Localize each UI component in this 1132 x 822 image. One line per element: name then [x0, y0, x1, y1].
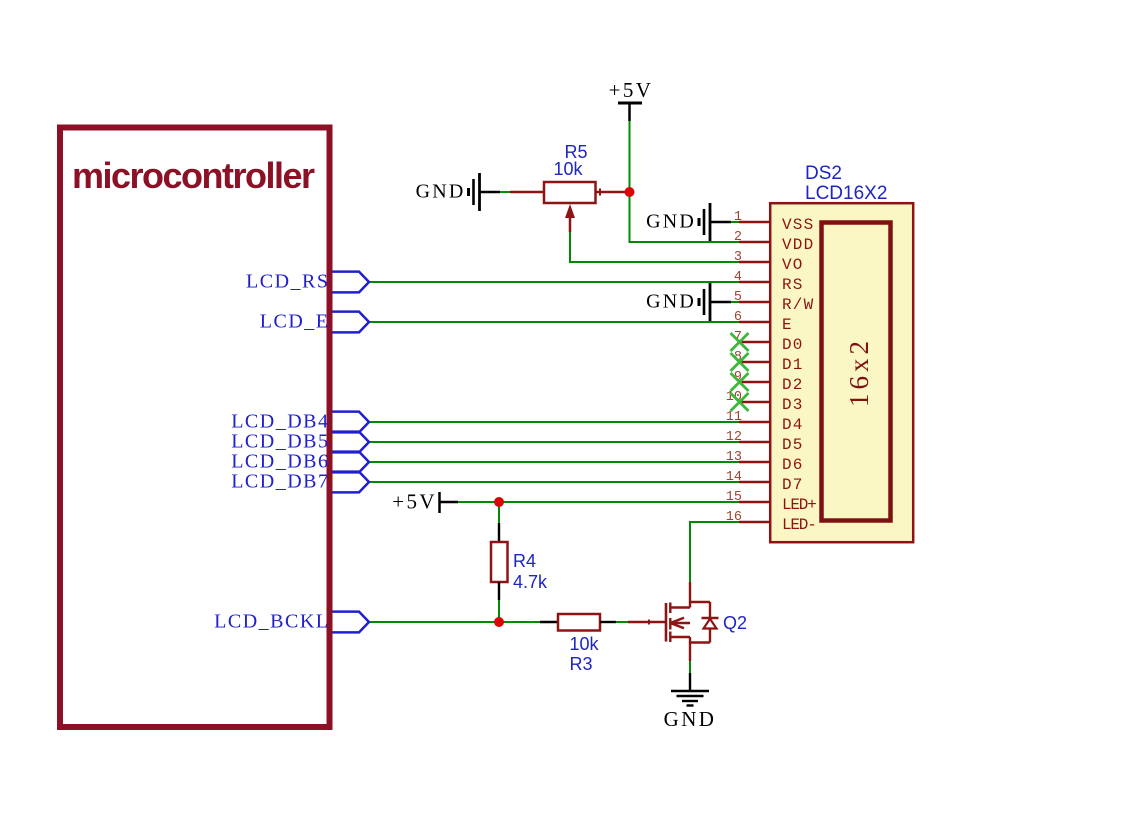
svg-text:LCD_DB7: LCD_DB7 — [231, 471, 329, 493]
svg-text:VSS: VSS — [782, 216, 814, 234]
pin 13 D6 — [739, 461, 770, 464]
svg-text:12: 12 — [726, 430, 742, 445]
tag LCD_DB5 — [333, 432, 370, 453]
wire GND stub at pin 1 — [730, 221, 740, 223]
IC DS2 LCD16X2 body — [770, 203, 913, 542]
svg-text:GND: GND — [646, 211, 696, 233]
svg-text:D6: D6 — [782, 456, 804, 474]
svg-text:LCD16X2: LCD16X2 — [805, 183, 887, 204]
wire net LCD_RS (tag tip to pin 4) — [369, 281, 739, 283]
svg-text:10k: 10k — [569, 634, 599, 654]
wire net LCD_DB5 (tag tip to pin 12) — [369, 441, 739, 443]
svg-text:LCD_DB5: LCD_DB5 — [231, 431, 329, 453]
pin 7 D0 — [739, 341, 770, 344]
wire net +5V to LED+ pin 15 — [458, 501, 739, 503]
svg-text:4: 4 — [734, 270, 742, 285]
svg-text:D0: D0 — [782, 336, 804, 354]
pin 3 VO — [739, 261, 770, 264]
pin 9 D2 — [739, 381, 770, 384]
svg-text:D4: D4 — [782, 416, 804, 434]
tag LCD_E — [333, 312, 370, 333]
svg-text:D2: D2 — [782, 376, 804, 394]
no-connect pin 10 — [731, 393, 749, 411]
svg-text:6: 6 — [734, 310, 742, 325]
wire Q2 source to ground — [689, 660, 691, 673]
svg-text:10k: 10k — [553, 159, 583, 179]
wire GND stub at pin 5 — [730, 301, 740, 303]
microcontroller box — [60, 128, 330, 728]
svg-text:D7: D7 — [782, 476, 804, 494]
svg-text:VO: VO — [782, 256, 804, 274]
svg-text:E: E — [782, 316, 793, 334]
svg-text:13: 13 — [726, 450, 742, 465]
ground symbol bottom (earth) — [664, 673, 717, 731]
svg-text:16: 16 — [726, 510, 742, 525]
svg-text:LCD_RS: LCD_RS — [246, 271, 329, 293]
Q2 gate pin — [628, 621, 665, 623]
svg-text:LCD_BCKL: LCD_BCKL — [214, 611, 329, 633]
junction node at +5V / R4 top — [494, 497, 504, 507]
svg-text:DS2: DS2 — [805, 163, 842, 184]
resistor R3 — [540, 614, 616, 631]
pin 14 D7 — [739, 481, 770, 484]
pin 1 VSS — [739, 221, 770, 224]
wire junction1 to R4 top — [498, 502, 500, 523]
pin 16 LED- — [739, 521, 770, 524]
svg-text:15: 15 — [726, 490, 742, 505]
svg-text:GND: GND — [646, 291, 696, 313]
wire net LCD_BCKL tag to R3 — [369, 621, 540, 623]
ground symbol at LCD pin 5 — [646, 283, 731, 321]
transistor Q2 (n-MOSFET with body diode) — [628, 582, 719, 661]
tag LCD_RS — [333, 272, 370, 293]
svg-text:16x2: 16x2 — [844, 337, 874, 407]
svg-text:LCD_DB6: LCD_DB6 — [231, 451, 329, 473]
no-connect pin 9 — [731, 373, 749, 391]
svg-text:3: 3 — [734, 250, 742, 265]
svg-text:1: 1 — [734, 210, 742, 225]
tag LCD_DB7 — [333, 472, 370, 493]
svg-text:14: 14 — [726, 470, 742, 485]
pin 8 D1 — [739, 361, 770, 364]
svg-text:+5V: +5V — [609, 78, 654, 102]
svg-text:R3: R3 — [569, 654, 592, 674]
svg-text:R4: R4 — [513, 551, 536, 571]
svg-text:D5: D5 — [782, 436, 804, 454]
svg-text:4.7k: 4.7k — [513, 572, 548, 592]
svg-text:GND: GND — [416, 181, 466, 203]
potentiometer R5 — [510, 182, 630, 232]
Q2 body diode branch — [690, 602, 719, 643]
svg-text:LCD_DB4: LCD_DB4 — [231, 411, 329, 433]
display window rectangle — [822, 223, 891, 521]
ground symbol at LCD pin 1 — [646, 203, 731, 241]
wire net LCD_DB6 (tag tip to pin 13) — [369, 461, 739, 463]
wire GND stub at R5 left — [499, 191, 510, 193]
svg-text:D3: D3 — [782, 396, 804, 414]
wire R3 to Q2 gate — [616, 621, 628, 623]
ground symbol at R5 left — [416, 173, 500, 211]
svg-text:2: 2 — [734, 230, 742, 245]
junction node at R4 bottom / R3 — [494, 617, 504, 627]
no-connect X marks on pins 7-10 — [731, 333, 749, 411]
pin 10 D3 — [739, 401, 770, 404]
no-connect pin 7 — [731, 333, 749, 351]
wire R4 bottom to junction2 — [498, 600, 500, 622]
Q2 channel dashes — [669, 603, 671, 614]
LCD pins 1-16 — [739, 222, 770, 522]
wire net VO from R5 wiper to pin 3 — [570, 232, 739, 262]
supply +5V symbol lower — [392, 490, 458, 514]
junction node at R5 / +5V — [625, 187, 635, 197]
Q2 body diode triangle — [704, 619, 717, 629]
svg-text:D1: D1 — [782, 356, 804, 374]
pin 12 D5 — [739, 441, 770, 444]
svg-text:+5V: +5V — [392, 490, 437, 514]
Q2 drain contact — [670, 606, 690, 608]
Q2 gate plate — [665, 603, 668, 642]
svg-text:5: 5 — [734, 290, 742, 305]
tag LCD_DB4 — [333, 412, 370, 433]
pin 5 R/W — [739, 301, 770, 304]
svg-text:GND: GND — [664, 707, 717, 731]
Q2 bulk arrow — [670, 618, 690, 629]
wire net LCD_E (tag tip to pin 6) — [369, 321, 739, 323]
svg-text:LED+: LED+ — [782, 496, 816, 514]
svg-text:R/W: R/W — [782, 296, 814, 314]
svg-text:LED-: LED- — [782, 516, 816, 534]
tag LCD_BCKL — [333, 612, 370, 633]
Q2 source lead — [689, 637, 691, 661]
pin 2 VDD — [739, 241, 770, 244]
svg-text:microcontroller: microcontroller — [72, 155, 315, 196]
tag LCD_DB6 — [333, 452, 370, 473]
wire net LED- pin 16 to Q2 drain — [690, 522, 739, 582]
wire net +5V to VDD pin 2 — [630, 121, 740, 242]
pin 4 RS — [739, 281, 770, 284]
pin names — [782, 216, 816, 534]
resistor R4 — [491, 523, 508, 600]
pin 6 E — [739, 321, 770, 324]
svg-text:Q2: Q2 — [723, 613, 747, 633]
no-connect pin 8 — [731, 353, 749, 371]
pin 11 D4 — [739, 421, 770, 424]
wire net LCD_DB4 (tag tip to pin 11) — [369, 421, 739, 423]
svg-text:RS: RS — [782, 276, 804, 294]
wire net LCD_DB7 (tag tip to pin 14) — [369, 481, 739, 483]
Q2 source contact — [670, 636, 690, 638]
Q2 drain lead — [689, 582, 691, 608]
supply +5V symbol top — [609, 78, 654, 121]
svg-text:LCD_E: LCD_E — [260, 311, 330, 333]
pin 15 LED+ — [739, 501, 770, 504]
pin numbers 1-16 — [726, 210, 742, 525]
svg-text:11: 11 — [726, 410, 742, 425]
svg-text:VDD: VDD — [782, 236, 814, 254]
